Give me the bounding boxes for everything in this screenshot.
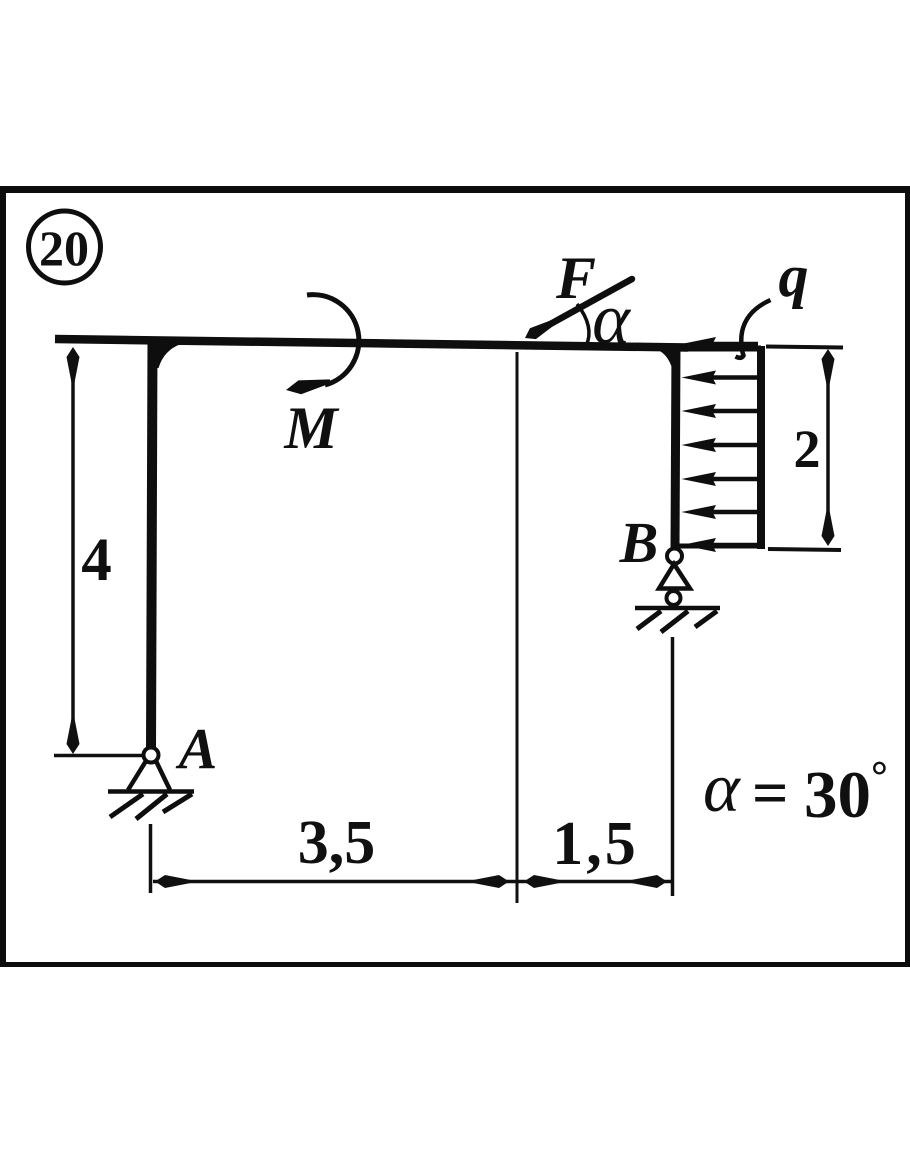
load arrow 1 <box>682 337 759 351</box>
angle alpha arc <box>577 304 589 346</box>
svg-text:1,5: 1,5 <box>552 810 639 878</box>
distributed load q: right edge line <box>757 346 765 549</box>
load arrow 3 <box>682 404 759 418</box>
fillet at beam / right column joint <box>652 344 673 371</box>
problem number badge 20 <box>29 211 101 283</box>
dimension 4: bottom tick at A level <box>54 754 142 758</box>
load arrow 4 <box>682 438 759 452</box>
extension line middle (from beam to bottom) <box>516 352 519 903</box>
dim 3,5 right arrowhead <box>474 875 509 888</box>
support B ground line <box>635 606 720 611</box>
support A pin circle <box>144 748 159 763</box>
svg-text:A: A <box>176 716 218 781</box>
extension line left (below A) <box>149 824 153 893</box>
svg-text:M: M <box>283 395 340 461</box>
q leader curve <box>736 300 771 358</box>
left column <box>151 340 153 749</box>
moment M arc <box>307 295 359 385</box>
dimension 4: bottom arrowhead <box>67 719 80 754</box>
svg-text:B: B <box>619 510 659 575</box>
svg-text:α: α <box>592 279 631 359</box>
dimension 4: top arrowhead <box>67 347 80 382</box>
load arrow 2 <box>682 371 759 385</box>
force F line <box>545 279 632 327</box>
distributed load q: bottom line <box>676 544 761 549</box>
support A ground line <box>108 789 194 794</box>
svg-text:2: 2 <box>794 419 821 479</box>
dimension 2: vertical line <box>826 356 830 540</box>
dimension 2: top tick <box>766 347 843 348</box>
force F arrowhead <box>525 318 559 339</box>
svg-text:3,5: 3,5 <box>298 809 376 877</box>
svg-text:q: q <box>779 243 809 309</box>
svg-text:=: = <box>752 757 788 828</box>
beam (top horizontal member) <box>55 339 688 348</box>
dimension 4: vertical line <box>71 356 75 746</box>
distributed load q: top line <box>674 346 761 352</box>
dimension 2: bottom arrowhead <box>822 511 835 546</box>
load arrow 6 <box>682 505 759 519</box>
dimension 2: top arrowhead <box>822 349 835 384</box>
dim 1,5 left arrowhead <box>524 875 559 888</box>
dim 1,5 right arrowhead <box>632 875 667 888</box>
support B pin circle <box>667 549 682 564</box>
svg-text:α: α <box>703 750 741 827</box>
border frame <box>0 186 910 967</box>
load arrow 7 <box>682 538 759 552</box>
right column <box>675 345 676 550</box>
support B hatching <box>637 611 717 632</box>
dimension 2: bottom tick <box>768 549 841 550</box>
svg-text:4: 4 <box>81 527 112 594</box>
svg-text:°: ° <box>871 754 888 800</box>
extension line right (below B) <box>671 637 675 896</box>
support B roller circle <box>667 591 681 605</box>
dim 3,5 left arrowhead <box>155 875 190 888</box>
svg-text:20: 20 <box>39 220 89 276</box>
moment M arrowhead <box>286 379 331 394</box>
bottom dimension line <box>153 880 671 884</box>
support A hatching <box>110 794 192 819</box>
svg-text:F: F <box>555 245 596 311</box>
svg-text:30: 30 <box>804 758 871 832</box>
load arrow 5 <box>682 472 759 486</box>
support A triangle <box>128 761 170 790</box>
fillet at beam / left column joint <box>155 341 181 368</box>
support B triangle <box>659 564 690 589</box>
